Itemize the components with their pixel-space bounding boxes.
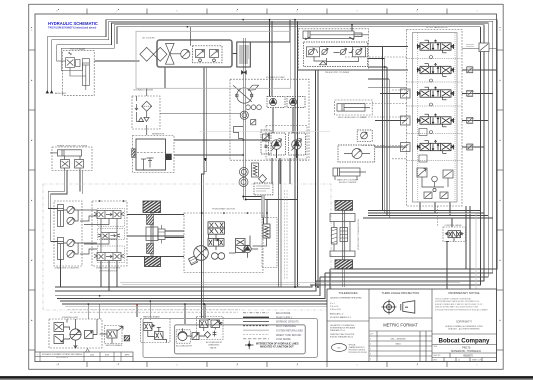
legend line pilot pressure (243, 325, 269, 327)
oil cooler fan motor (181, 49, 190, 58)
oil cooler bypass valve 2 port (213, 59, 216, 62)
wire control group link 2 (127, 235, 184, 237)
wire light loop right (437, 214, 476, 311)
bypass diamond (259, 175, 267, 183)
svg-text:SPOOL VALVE BLOCK: SPOOL VALVE BLOCK (426, 26, 448, 29)
engine small circle a (246, 105, 251, 110)
copyright sub (445, 325, 483, 331)
revision table rows (35, 356, 133, 358)
accumulator box (176, 330, 190, 343)
frame levelling cylinder enclosure (52, 147, 92, 171)
reservoir enclosure (133, 136, 175, 173)
svg-text:5: 5 (370, 359, 371, 361)
main pump 1 arrow (272, 139, 282, 151)
wire filter to gauge (160, 113, 240, 115)
svg-text:(OPTIONS) PRIOR WRITTEN PERMIS: (OPTIONS) PRIOR WRITTEN PERMISSION OF BO… (435, 308, 489, 311)
oil cooler motor arrows (182, 50, 189, 57)
spool valve 5 port detail (402, 144, 409, 150)
svg-text:OIL COOLER: OIL COOLER (142, 38, 155, 40)
pilot check unit circle (361, 132, 368, 139)
steering amp arrows (86, 331, 93, 337)
hydrostatic charge filter spring (264, 226, 268, 237)
wire bottom bundle 3 (55, 277, 320, 296)
lift cylinder body (333, 168, 360, 176)
spool valve 1 side text (466, 45, 474, 49)
pilot valve arrow (263, 134, 269, 140)
tilt valve drain (70, 67, 86, 81)
spool outlet block (443, 170, 453, 178)
tilt cylinder enclosure (63, 51, 94, 96)
svg-text:PUMP SUPPLY: PUMP SUPPLY (276, 318, 293, 320)
junction dots bundle (88, 19, 448, 305)
wire bottom bundle 2 (55, 281, 316, 291)
wire spool left feed 5 (375, 146, 406, 148)
parts grid row labels (370, 334, 374, 361)
frame levelling cylinder piston2 (63, 150, 65, 156)
hydrostatic drain hatch (190, 259, 197, 264)
wire spool left feed 4 (375, 120, 406, 122)
right axle pto unit (332, 228, 338, 245)
oil cooler body (157, 40, 232, 67)
gear pump box 2 (287, 97, 305, 108)
svg-text:BOOM CYLINDER: BOOM CYLINDER (339, 182, 357, 184)
steering valve upper (54, 323, 64, 332)
tilt lock valve body (66, 58, 75, 68)
hydrostatic solenoid valve b arrows (210, 229, 224, 233)
border zone letters left (31, 30, 33, 322)
svg-text:HYDRAULIC FILTER: HYDRAULIC FILTER (134, 89, 154, 92)
svg-text:INTERPRETATION PER ASME: INTERPRETATION PER ASME (330, 327, 356, 330)
wire manifold vertical (242, 38, 244, 200)
engine flag (249, 85, 259, 90)
stabilizer lower valve a (67, 239, 74, 246)
stabilizer to control link lower (80, 243, 97, 254)
legend line load sense (243, 338, 269, 340)
svg-text:SCHEMATIC, HYDRAULIC: SCHEMATIC, HYDRAULIC (451, 350, 482, 353)
spool section line 5 (407, 160, 463, 162)
stabilizer upper links (64, 210, 81, 221)
wire mid horizontal bundle c (368, 215, 488, 217)
svg-text:PILOT PRESSURE: PILOT PRESSURE (276, 326, 296, 328)
wire pump return vertical 2 (280, 160, 282, 287)
stabilizer cylinder upper body (58, 205, 64, 227)
charging orifice (213, 331, 217, 337)
stabilizer upper valve b arrow (68, 217, 76, 224)
svg-text:LOAD SENSE: LOAD SENSE (276, 338, 291, 341)
self levelling cylinder piston (342, 104, 370, 111)
frame levelling lock valve left (61, 160, 70, 169)
wire accumulator feed (184, 304, 186, 324)
wire right axle drop 2 (344, 269, 346, 287)
main pump enclosure (266, 126, 307, 160)
engine small circle b (251, 105, 256, 110)
svg-text:VALVE: VALVE (210, 346, 217, 349)
right axle links (334, 222, 350, 252)
control sub box 3 (98, 246, 125, 263)
auxiliary arrow 2 (50, 90, 53, 93)
frame levelling cylinder rod (50, 152, 58, 154)
title block column lines (369, 289, 432, 362)
legend junction symbol (245, 341, 254, 350)
chassis enclosure grey (143, 319, 318, 358)
revision table text (37, 353, 130, 359)
charging valve cluster (197, 317, 224, 340)
legend line pump supply (243, 316, 269, 318)
left axle tire bottom (145, 257, 161, 267)
legend line direct tank return (243, 334, 269, 336)
oil cooler bypass valve 1 port (199, 59, 202, 62)
wire bottom bundle 6 (62, 206, 470, 304)
wire right axle drop 1 (342, 269, 344, 287)
svg-text:SHEET 1 OF 2: SHEET 1 OF 2 (472, 359, 483, 361)
wire top bundle 5 (117, 27, 481, 44)
svg-text:1: 1 (370, 339, 371, 341)
charging links (204, 328, 215, 332)
right axle bottom housing (330, 251, 355, 257)
pump return bar (262, 195, 265, 218)
svg-text:HYDROSTATIC MOTOR: HYDROSTATIC MOTOR (212, 207, 235, 210)
telescopic valve 4 (353, 47, 366, 57)
spool aux square v3 (467, 90, 473, 96)
stabilizer lower valve b arrow (68, 250, 76, 257)
spool valve 5 relief (419, 155, 427, 162)
wire control group link 3 (127, 256, 184, 258)
spool valve 2 (417, 63, 453, 76)
wire mid vertical pump-steering pair 2 (204, 67, 207, 319)
wire steering feed 2 (99, 304, 101, 319)
pilot check unit box (357, 130, 372, 141)
service brake links (100, 334, 112, 344)
bottom dark band (0, 376, 533, 379)
oil cooler check diamond 1 (140, 47, 154, 61)
oil cooler bypass valve 2 (210, 50, 219, 58)
main pump 2 triangle (294, 141, 300, 146)
wire control valve up stub (451, 218, 453, 227)
aux motor arrows (344, 150, 370, 158)
wire pump feed vertical 1 (269, 20, 271, 97)
spool valve 3 (417, 87, 453, 100)
telescopic cylinder body (303, 31, 354, 39)
inline orifice box top right (479, 43, 489, 52)
telescopic cylinder piston (308, 31, 310, 39)
oil cooler bypass valve 1 (196, 50, 205, 58)
drain filter box (262, 218, 277, 268)
main pump 2 circle (292, 140, 302, 150)
hydrostatic solenoid valve a arrows (210, 223, 224, 227)
hydraulic filter diamond (142, 101, 152, 111)
hydrostatic gauge a (212, 253, 219, 260)
telescopic valve 4 arrow (352, 48, 363, 55)
wire frame levelling drop 3 (79, 170, 81, 191)
wire right edge 5 (310, 27, 481, 285)
service brake valve (107, 330, 117, 338)
spool aux square v4 (467, 117, 473, 123)
left brake pack top (147, 215, 154, 225)
svg-text:STABILIZER CYLINDERS: STABILIZER CYLINDERS (55, 267, 80, 270)
svg-text:CHARGING: CHARGING (208, 344, 220, 347)
wire spool approach vertical 2 (384, 59, 386, 214)
wire return line light b (68, 309, 240, 311)
revision table (35, 352, 133, 362)
telescopic valve 2 arrow (322, 48, 329, 55)
spool valve block outer enclosure (407, 30, 463, 207)
spool shuttle 1 (430, 56, 433, 59)
reservoir breather (132, 149, 135, 158)
pilot valve spring (265, 145, 268, 148)
wire telescopic feed vertical (351, 25, 353, 31)
proprietary paragraph (435, 298, 489, 312)
control sub box 2 (98, 228, 125, 239)
border tick marks left (29, 50, 35, 350)
gauge circle 2 (239, 168, 248, 177)
svg-text:ANGULAR ± 1°: ANGULAR ± 1° (330, 313, 344, 316)
wire control group bundle drop 2 (108, 261, 110, 292)
service brake right enclosure (105, 326, 123, 344)
wire cooler right link (232, 53, 237, 55)
svg-text:DWG NO: DWG NO (434, 355, 441, 357)
svg-text:3: 3 (370, 349, 371, 351)
gear pump box 1 (267, 97, 285, 108)
oil cooler check diamond 2 (153, 47, 167, 61)
hydrostatic charge filter (263, 224, 270, 238)
bottom right small cells (444, 353, 482, 362)
hydrostatic drain box (189, 256, 198, 265)
legend line system return (243, 329, 269, 331)
svg-text:UNLESS OTHERWISE SPECIFIED: UNLESS OTHERWISE SPECIFIED (330, 298, 362, 300)
svg-text:METRIC FORMAT: METRIC FORMAT (383, 323, 418, 328)
charging valve a (200, 320, 209, 328)
gauge circle 2 inner (241, 169, 246, 174)
svg-text:ENCLOSURE: ENCLOSURE (276, 313, 291, 315)
border tick marks bottom (87, 362, 447, 368)
wire flow arrow mid (204, 158, 207, 161)
svg-text:DIRECT TANK RETURN: DIRECT TANK RETURN (276, 334, 302, 337)
telescopic valve 4 check (356, 49, 361, 54)
svg-text:HYDRAULIC PUMP: HYDRAULIC PUMP (266, 76, 285, 79)
wire brake feed 2 (149, 301, 151, 320)
pilot check unit arrow (361, 132, 367, 139)
main pump 1 circle (272, 140, 282, 150)
wire spool bottom drop 2 (434, 202, 436, 213)
right axle gear mid (340, 228, 348, 242)
hydrostatic motor arrows (196, 247, 206, 258)
spool valve 3 port box (401, 89, 411, 98)
gauge valve small (251, 120, 256, 125)
wire brake feed (136, 305, 138, 317)
hydrostatic motor circle (194, 246, 209, 261)
legend line working circuits (243, 321, 269, 323)
spool section line 1 (407, 58, 463, 60)
svg-text:STEERING UNIT: STEERING UNIT (62, 317, 79, 319)
hydrostatic charge pump triangle (245, 246, 250, 250)
wire spool approach vertical 4 (388, 79, 390, 218)
gauge circle 3 inner (241, 180, 246, 185)
border tick marks top (87, 9, 447, 15)
svg-text:TILT CYLINDER: TILT CYLINDER (70, 49, 86, 51)
oil cooler fan blades (166, 44, 175, 65)
svg-text:X.X ± 0.5: X.X ± 0.5 (330, 306, 339, 308)
stabilizer control group enclosure (92, 201, 127, 266)
wire control group bundle drop 1 (100, 261, 102, 288)
reservoir fluid level (137, 152, 165, 154)
charging valve box (197, 317, 224, 340)
telescopic cylinder enclosure (299, 29, 369, 70)
wire manifold bridge 1 (243, 197, 263, 225)
gauge circle 1 (240, 111, 248, 119)
service brake hatch box (124, 336, 130, 341)
return filter body (252, 163, 259, 177)
tolerances divider (327, 320, 369, 322)
svg-text:TOLERANCES: TOLERANCES (339, 291, 358, 295)
junction dot red (136, 304, 138, 306)
parking brake valve a arrows (145, 324, 152, 330)
main pump sub box 2 (289, 133, 306, 155)
service brake pedal lever (117, 327, 123, 332)
spool valve 3 port detail (402, 91, 409, 97)
wire spool approach vertical 3 (386, 67, 388, 216)
parking brake valve b (155, 332, 164, 340)
svg-text:SC: SC (337, 348, 340, 350)
control valve row 2 cells (103, 233, 116, 240)
spool bottom shuttle (433, 188, 436, 191)
hydraulic filter check a (138, 118, 143, 122)
reservoir tank body (136, 139, 166, 170)
svg-text:Bobcat Company: Bobcat Company (439, 337, 490, 344)
svg-text:PROPRIETARY AND TRADE SECRET I: PROPRIETARY AND TRADE SECRET INFORMATION… (435, 300, 479, 303)
gauge valve arrow (251, 120, 255, 124)
telescopic valve box (304, 42, 368, 67)
parking brake enclosure (141, 319, 171, 343)
hydrostatic solenoid valve b (208, 228, 225, 234)
svg-text:HYDRAULIC SCHEMATIC: HYDRAULIC SCHEMATIC (48, 21, 98, 26)
wire cooler to tilt (95, 60, 140, 62)
enclosure dashed vertical a (284, 190, 286, 280)
wire spool right stub 5 (462, 146, 484, 148)
pilot dashed line 4 (362, 116, 407, 118)
control valve body (448, 231, 461, 238)
pilot valve box (261, 130, 271, 154)
svg-text:6902070: 6902070 (463, 355, 473, 358)
wire mid horizontal bundle b (368, 212, 484, 214)
stabilizer upper valve a arrow (68, 206, 76, 213)
wire bottom bundle 4 (57, 273, 325, 299)
frame levelling cylinder body (58, 150, 82, 156)
wire spool approach horizontal 4 (368, 87, 407, 89)
drive coupling (241, 71, 246, 74)
cab enclosure grey (175, 325, 306, 354)
wire control group bundle drop 3 (116, 261, 118, 288)
pilot dashed line 2 (392, 89, 407, 91)
wire mid horizontal bundle a (368, 210, 481, 212)
hydraulic filter enclosure (132, 96, 160, 129)
spool valve 3 side text (466, 92, 474, 96)
self levelling cylinder body (337, 104, 365, 111)
metric divider (369, 318, 432, 331)
accumulator link (187, 335, 205, 337)
enclosure dashed vertical b (286, 190, 288, 280)
gauge circle 1 inner (242, 113, 247, 118)
manifold step bend (234, 127, 244, 139)
wire steering feed 1 (87, 304, 89, 319)
wire gear pump to main pump 1 (272, 108, 274, 134)
special characteristics logo (332, 344, 347, 352)
steering valve lower (54, 335, 64, 344)
svg-text:AUXILIARY: AUXILIARY (55, 92, 67, 95)
reservoir strainer (147, 158, 154, 168)
proprietary divider (432, 334, 497, 358)
hydrostatic links (208, 234, 266, 258)
wire frame levelling drop 1 (48, 170, 65, 209)
spool valve 4 port box (401, 116, 411, 125)
wire control group link 1 (127, 214, 184, 216)
svg-text:HYDRAULIC SCHEMATIC UPDATED PE: HYDRAULIC SCHEMATIC UPDATED PER CHANGE (42, 353, 83, 356)
spool bottom links (422, 177, 448, 187)
title block frame (327, 289, 497, 362)
svg-text:2: 2 (370, 344, 371, 346)
control group internal drops (84, 219, 117, 253)
svg-text:STANDARD Y14.5: STANDARD Y14.5 (330, 329, 345, 332)
right axle gear mid lines (340, 231, 348, 238)
legend line enclosure (243, 312, 269, 314)
border zone letters right (499, 30, 501, 322)
lift cylinder ports (335, 176, 357, 180)
control valve enclosure (443, 227, 466, 242)
wire reservoir to pump suction (174, 139, 269, 141)
paper inner border (35, 14, 497, 362)
spool inlet section arrow (418, 169, 426, 177)
engine shaft diagonal (233, 85, 253, 102)
third angle symbol circle (382, 300, 397, 315)
spool bottom aux box a (424, 192, 432, 199)
spool gallery line P (417, 33, 419, 202)
wire control valve drop (446, 242, 448, 296)
wire spool feed right (462, 48, 497, 50)
frame levelling lock valve right (75, 160, 84, 169)
engine bay enclosure dashed (136, 31, 291, 88)
parking brake valve b arrows (156, 333, 163, 339)
pilot dashed line 5 (362, 145, 407, 147)
svg-text:034 – 6902038: 034 – 6902038 (391, 339, 406, 341)
main pump sub box 1 (269, 133, 286, 155)
wire light loop left (200, 131, 331, 133)
svg-text:TELESCOPIC CYLINDER: TELESCOPIC CYLINDER (325, 72, 350, 74)
control valve row 2 body (101, 233, 117, 240)
svg-text:CONTROL GROUP: CONTROL GROUP (99, 270, 118, 272)
wire pump return vertical 1 (278, 160, 280, 287)
spool valve 4 relief (419, 129, 427, 136)
steering valve lower arrows (55, 336, 63, 342)
wire spool approach horizontal 2 (368, 66, 387, 68)
svg-text:MAIN LIFT CYLINDER: MAIN LIFT CYLINDER (337, 179, 359, 182)
stabilizer cylinder upper piston (58, 209, 64, 227)
telescopic valve 3 check (340, 49, 345, 54)
wire spool approach vertical 1 (382, 47, 384, 211)
hydrostatic motor enclosure (184, 213, 263, 273)
control valve row 3 body (97, 253, 121, 261)
svg-text:ACCUMULATOR: ACCUMULATOR (176, 345, 192, 348)
border tick marks right (497, 50, 504, 350)
wire pump feed vertical 2 (271, 21, 273, 96)
machine enclosure dashed (43, 184, 331, 310)
telescopic cylinder end arrows (305, 37, 354, 40)
wire main pump outlets (277, 149, 297, 158)
tilt cylinder piston (82, 62, 89, 64)
pilot dashed line 3 (345, 103, 407, 105)
svg-text:FRAME LEVELLING CYLINDER: FRAME LEVELLING CYLINDER (57, 144, 88, 147)
steering unit enclosure (49, 319, 102, 348)
spool valve 2 side text (466, 68, 474, 72)
control valve row 1 body (97, 211, 121, 219)
